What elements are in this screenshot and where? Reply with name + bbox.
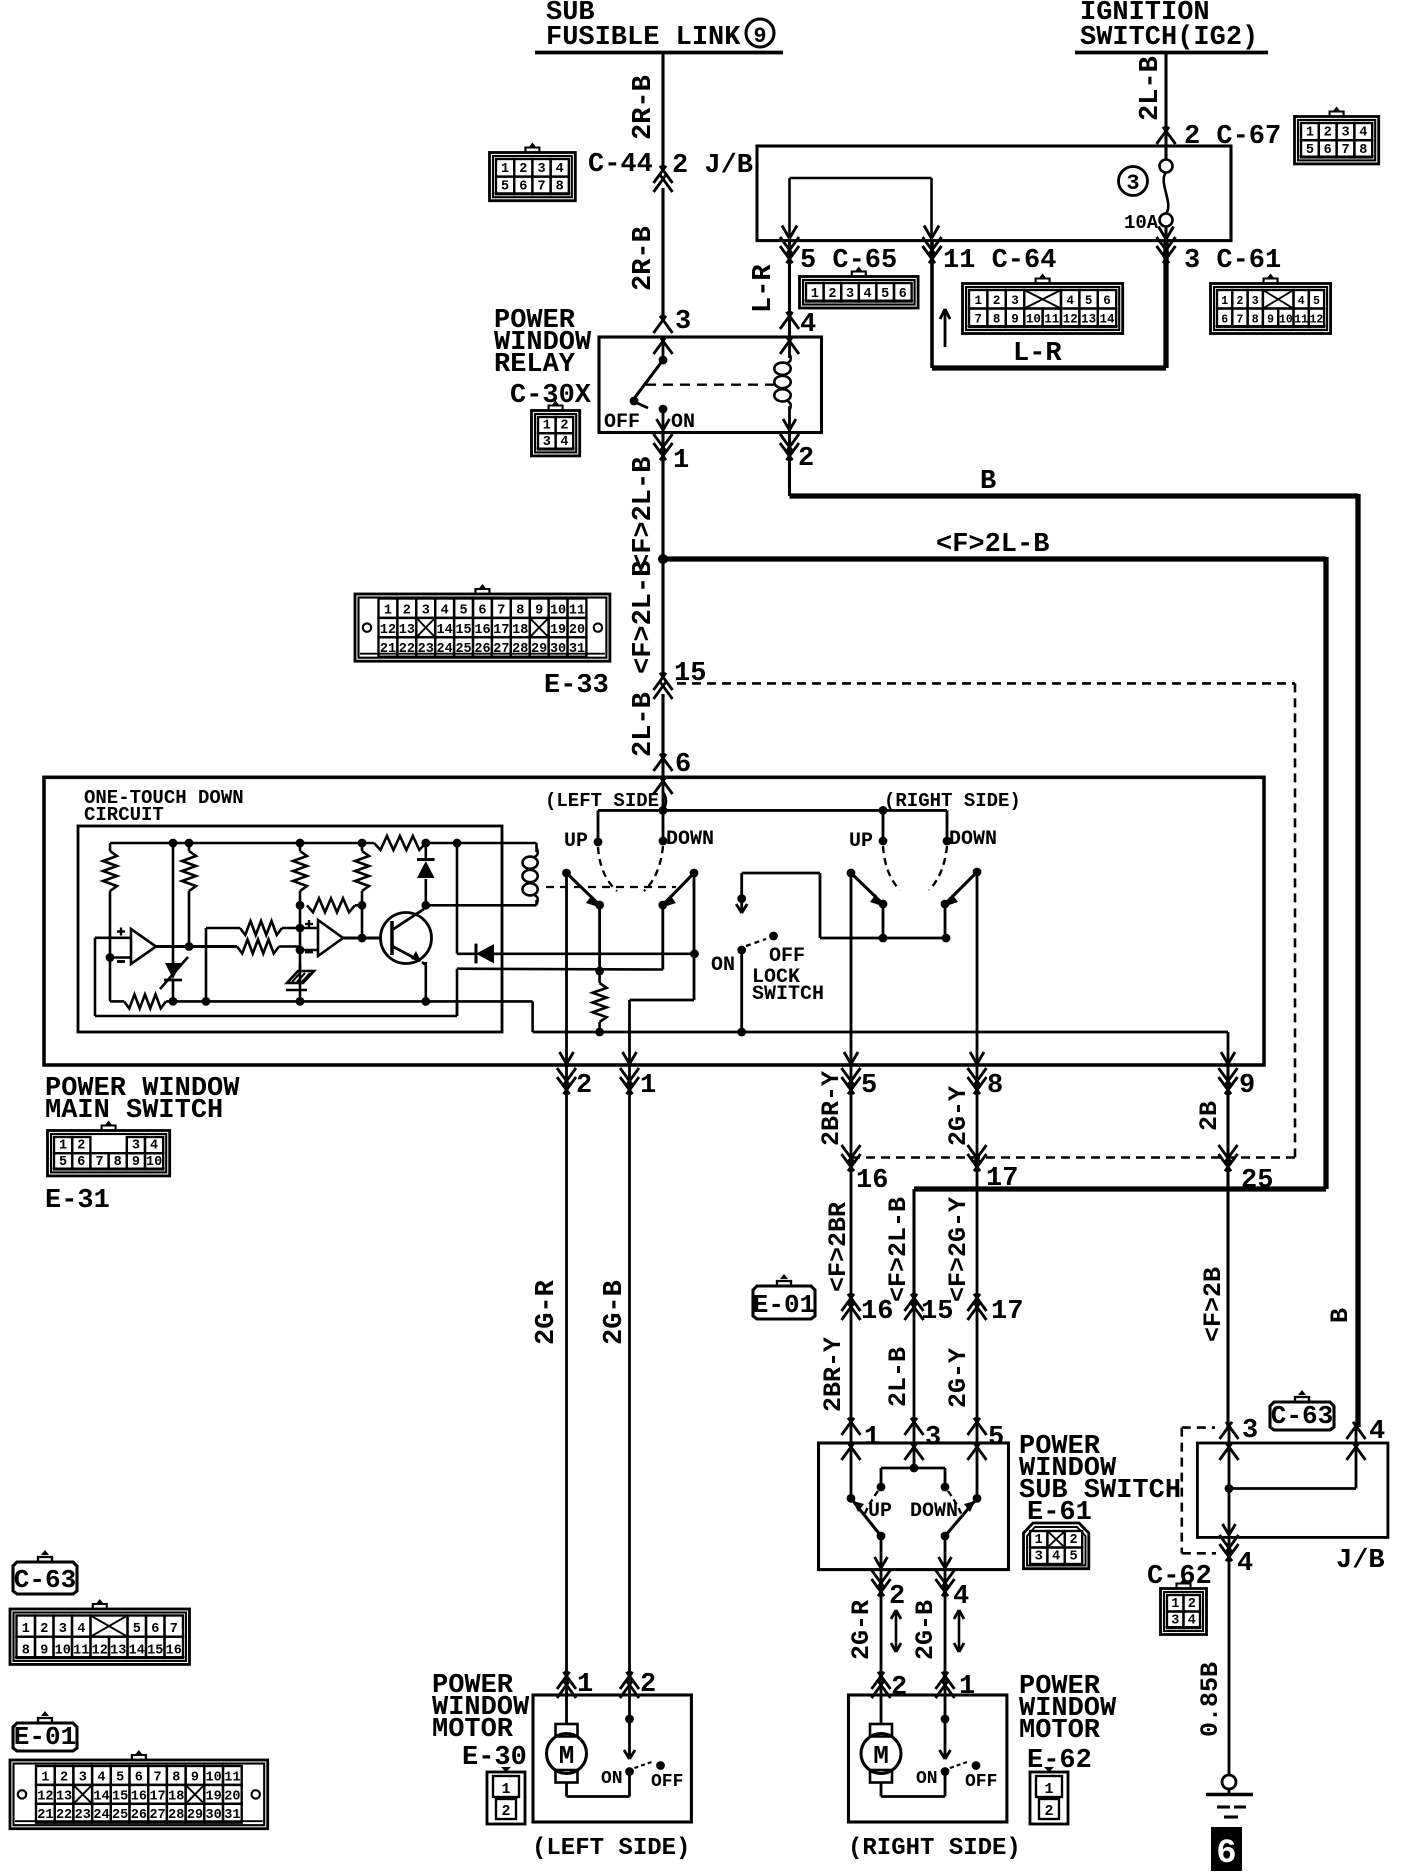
label POWER WINDOW MOTOR E-30 xyxy=(432,1671,530,1773)
svg-text:5: 5 xyxy=(861,1071,877,1101)
chevron 4 at C-63 xyxy=(1347,1417,1386,1460)
svg-text:3: 3 xyxy=(846,287,854,302)
svg-text:4: 4 xyxy=(560,435,568,450)
resistor R6 xyxy=(237,940,318,954)
label L-R under C-64 xyxy=(1013,339,1062,369)
chevron 3 at C-63 xyxy=(1220,1416,1259,1460)
motor L entry 1 xyxy=(557,1670,593,1700)
svg-text:DOWN: DOWN xyxy=(949,828,997,851)
svg-text:1: 1 xyxy=(1306,126,1314,141)
svg-text:7: 7 xyxy=(974,313,982,327)
svg-text:25: 25 xyxy=(455,642,471,657)
label 2R-B upper xyxy=(629,75,659,140)
fuse number 3 circled xyxy=(1119,167,1148,197)
svg-text:7: 7 xyxy=(497,603,505,618)
left pole wires xyxy=(595,905,663,975)
node IGNITION SWITCH (IG2) title xyxy=(1075,0,1268,53)
svg-text:1: 1 xyxy=(673,446,689,476)
one-touch down circuit box xyxy=(78,826,502,1032)
label 4 at relay coil input xyxy=(800,310,816,340)
svg-text:3: 3 xyxy=(925,1423,941,1453)
motor R entry 1 xyxy=(936,1672,976,1702)
svg-text:10: 10 xyxy=(1279,314,1293,327)
svg-text:5 C-65: 5 C-65 xyxy=(800,246,897,276)
wire C-65 pin5 drop xyxy=(780,237,799,337)
svg-text:5: 5 xyxy=(116,1770,124,1785)
connector E-62 pins xyxy=(1030,1767,1068,1824)
relay coil xyxy=(774,337,799,432)
wire 2R-B from C-44 to relay pin3 xyxy=(661,188,664,318)
label 2G-Y upper xyxy=(944,1086,973,1146)
chevron 16 lower xyxy=(842,1294,894,1327)
svg-text:1: 1 xyxy=(501,1781,510,1798)
svg-text:7: 7 xyxy=(537,180,545,195)
connector tag E-01 mid xyxy=(753,1274,815,1320)
svg-text:11: 11 xyxy=(1294,314,1308,327)
svg-text:29: 29 xyxy=(187,1808,203,1823)
sub UP dashed arc xyxy=(864,1491,878,1516)
svg-text:2BR-Y: 2BR-Y xyxy=(817,1071,846,1146)
svg-text:DOWN: DOWN xyxy=(666,828,714,851)
svg-text:1: 1 xyxy=(41,1770,49,1785)
svg-text:4: 4 xyxy=(1298,295,1305,308)
svg-text:5: 5 xyxy=(881,287,889,302)
svg-text:22: 22 xyxy=(399,642,415,657)
svg-text:6: 6 xyxy=(478,603,486,618)
label F 2L-B under relay xyxy=(629,457,659,570)
svg-text:1: 1 xyxy=(974,294,982,308)
svg-text:22: 22 xyxy=(56,1808,72,1823)
main switch exit wire 8 xyxy=(968,1052,1004,1101)
sub switch pin 3 entry xyxy=(905,1418,942,1460)
right UP contact xyxy=(879,810,888,845)
svg-text:11: 11 xyxy=(569,603,585,618)
one-touch top rail xyxy=(110,842,537,845)
svg-text:12: 12 xyxy=(92,1643,108,1658)
resistor R2 xyxy=(182,843,196,947)
svg-text:5: 5 xyxy=(1069,1550,1077,1565)
svg-text:ON: ON xyxy=(601,1769,623,1789)
wire 2R-B from sub fusible link to C-44 xyxy=(661,52,664,170)
relay pin3 chevron inside xyxy=(654,337,673,360)
svg-text:ON: ON xyxy=(711,954,735,977)
svg-text:ON: ON xyxy=(671,411,695,434)
svg-text:C-44: C-44 xyxy=(588,150,653,180)
svg-text:8: 8 xyxy=(22,1643,30,1658)
sub switch arm UP xyxy=(851,1498,885,1540)
svg-text:3: 3 xyxy=(59,1622,67,1637)
svg-text:4: 4 xyxy=(953,1582,969,1612)
power window sub switch box xyxy=(819,1443,1009,1570)
label 2 under relay xyxy=(798,444,814,474)
label 3 above relay xyxy=(675,307,691,337)
svg-text:2: 2 xyxy=(891,1673,907,1703)
junction dot main 2L-B xyxy=(658,554,668,564)
sub switch arm DOWN xyxy=(941,1498,977,1540)
svg-text:SWITCH(IG2): SWITCH(IG2) xyxy=(1080,23,1258,53)
R5 left drop wire xyxy=(205,928,208,1001)
svg-text:3: 3 xyxy=(1126,171,1139,196)
connector C-64 xyxy=(963,274,1123,334)
resistor R4 horizontal xyxy=(307,898,362,912)
svg-text:6: 6 xyxy=(899,287,907,302)
svg-text:16: 16 xyxy=(474,623,490,638)
connector C-67 xyxy=(1295,107,1379,164)
svg-text:7: 7 xyxy=(1341,143,1349,158)
svg-text:25: 25 xyxy=(112,1808,128,1823)
label 5 C-65 xyxy=(800,246,897,276)
label E-61 xyxy=(1027,1498,1092,1528)
svg-text:MOTOR: MOTOR xyxy=(432,1715,514,1745)
op-amp U2 output wire xyxy=(343,936,381,939)
label (RIGHT SIDE) xyxy=(848,1835,1021,1862)
svg-text:18: 18 xyxy=(168,1789,184,1804)
svg-text:12: 12 xyxy=(380,623,396,638)
wire L-R bus bottom xyxy=(932,365,1166,370)
svg-text:C-63: C-63 xyxy=(14,1565,76,1595)
wire fuse to C-61 pin3 xyxy=(1157,237,1176,368)
svg-text:12: 12 xyxy=(1063,313,1078,327)
svg-text:(LEFT SIDE): (LEFT SIDE) xyxy=(545,790,670,812)
right DOWN dashed arc xyxy=(929,846,947,890)
label OFF motor R xyxy=(965,1772,997,1792)
connector C-65 xyxy=(800,267,919,309)
svg-text:CIRCUIT: CIRCUIT xyxy=(84,804,164,826)
junction block J/B box xyxy=(757,146,1231,241)
svg-text:3 C-61: 3 C-61 xyxy=(1184,246,1281,276)
chevrons 16 xyxy=(842,1145,889,1196)
svg-text:0.85B: 0.85B xyxy=(1196,1662,1225,1737)
svg-text:21: 21 xyxy=(37,1808,53,1823)
svg-text:6: 6 xyxy=(1221,314,1228,327)
wire 0.85B ground xyxy=(1228,1556,1231,1775)
wire J/B out xyxy=(1220,1489,1239,1562)
ground symbol xyxy=(1206,1775,1253,1817)
svg-text:19: 19 xyxy=(206,1789,222,1804)
svg-text:11: 11 xyxy=(1044,313,1059,327)
label UP sub xyxy=(868,1500,892,1523)
svg-text:FUSIBLE LINK: FUSIBLE LINK xyxy=(546,23,741,53)
svg-text:2: 2 xyxy=(60,1770,68,1785)
transistor Q1 xyxy=(381,909,432,964)
svg-text:OFF: OFF xyxy=(651,1772,683,1792)
svg-text:9: 9 xyxy=(753,24,766,49)
wire B into J/B xyxy=(1229,1427,1356,1489)
svg-text:9: 9 xyxy=(132,1155,140,1170)
svg-text:(LEFT SIDE): (LEFT SIDE) xyxy=(532,1835,690,1862)
svg-text:2: 2 xyxy=(576,1071,592,1101)
main switch exit wire 2 xyxy=(557,1052,592,1101)
main switch exit wire 5 xyxy=(842,1052,878,1101)
svg-text:8: 8 xyxy=(993,313,1001,327)
label F 2L-B pin15 xyxy=(884,1197,913,1302)
svg-text:<F>2L-B: <F>2L-B xyxy=(884,1197,913,1302)
svg-text:14: 14 xyxy=(129,1643,145,1658)
svg-text:OFF: OFF xyxy=(604,411,640,434)
label J/B bottom xyxy=(1336,1546,1385,1576)
sub switch pin1 wire xyxy=(847,1443,856,1503)
label F 2BR xyxy=(824,1202,853,1292)
svg-text:3: 3 xyxy=(79,1770,87,1785)
right DOWN contact xyxy=(943,810,952,845)
label 2G-R left xyxy=(532,1279,562,1345)
left switch arm UP xyxy=(562,869,600,907)
svg-text:11: 11 xyxy=(73,1643,89,1658)
svg-text:31: 31 xyxy=(224,1808,240,1823)
svg-text:30: 30 xyxy=(206,1808,222,1823)
dashed junction line right xyxy=(851,1156,1295,1159)
relay ON contact xyxy=(657,405,670,432)
label DOWN left xyxy=(666,828,714,851)
label POWER WINDOW MAIN SWITCH xyxy=(45,1074,240,1126)
svg-text:1: 1 xyxy=(1044,1781,1053,1798)
svg-text:1: 1 xyxy=(811,287,819,302)
label OFF lock xyxy=(769,945,805,968)
svg-text:15: 15 xyxy=(921,1297,953,1327)
svg-text:8: 8 xyxy=(516,603,524,618)
svg-text:4: 4 xyxy=(150,1139,158,1154)
svg-text:8: 8 xyxy=(1359,143,1367,158)
diode D1 xyxy=(417,843,435,878)
svg-text:10: 10 xyxy=(550,603,566,618)
svg-text:E-33: E-33 xyxy=(544,671,609,701)
label POWER WINDOW RELAY xyxy=(494,306,592,380)
svg-text:12: 12 xyxy=(37,1789,53,1804)
svg-text:UP: UP xyxy=(849,830,873,853)
svg-text:12: 12 xyxy=(1310,314,1324,327)
sub switch pole wires xyxy=(881,1536,945,1570)
svg-text:13: 13 xyxy=(399,623,415,638)
svg-text:24: 24 xyxy=(93,1808,109,1823)
label 2BR-Y upper xyxy=(817,1071,846,1146)
svg-text:15: 15 xyxy=(455,623,471,638)
connector E-61 xyxy=(1024,1523,1089,1569)
wire 2L-B to E-33 pin15 xyxy=(661,559,664,676)
svg-text:1: 1 xyxy=(577,1670,593,1700)
wire 2 left contact down xyxy=(565,873,568,1065)
connector C-44 in-line marker (chevrons) xyxy=(654,166,673,192)
motor R entry 2 xyxy=(872,1672,908,1703)
svg-text:18: 18 xyxy=(512,623,528,638)
svg-text:UP: UP xyxy=(868,1500,892,1523)
svg-text:RELAY: RELAY xyxy=(494,350,576,380)
svg-text:3: 3 xyxy=(1252,295,1259,308)
label F 2B xyxy=(1199,1267,1228,1342)
sub switch pin5 wire xyxy=(973,1443,982,1503)
svg-text:1: 1 xyxy=(1171,1597,1179,1612)
svg-text:4: 4 xyxy=(441,603,449,618)
svg-text:31: 31 xyxy=(569,642,585,657)
label ON lock xyxy=(711,954,735,977)
svg-text:<F>2G-Y: <F>2G-Y xyxy=(944,1197,973,1302)
op-amp U1 plus input wire xyxy=(95,936,131,939)
svg-text:10: 10 xyxy=(206,1770,222,1785)
left UP contact xyxy=(594,810,603,846)
label F 2L-B bus xyxy=(936,530,1049,560)
resistor R3 xyxy=(293,843,307,971)
svg-text:L-R: L-R xyxy=(749,264,779,313)
label B right rotated xyxy=(1326,1308,1355,1323)
connector tag C-63 right xyxy=(1270,1390,1334,1431)
svg-text:UP: UP xyxy=(564,830,588,853)
svg-text:26: 26 xyxy=(131,1808,147,1823)
svg-text:2: 2 xyxy=(519,162,527,177)
label LOCK xyxy=(752,966,800,989)
dashed wire E-33 to sub right xyxy=(677,683,1295,1157)
svg-text:13: 13 xyxy=(56,1789,72,1804)
svg-text:2: 2 xyxy=(1236,295,1243,308)
svg-text:2B: 2B xyxy=(1195,1101,1224,1131)
one-touch relay coil xyxy=(523,843,538,905)
label POWER WINDOW MOTOR E-62 xyxy=(1019,1672,1117,1776)
svg-text:2BR-Y: 2BR-Y xyxy=(819,1337,848,1412)
wire 2G-B sub to motor xyxy=(944,1570,947,1695)
svg-text:13: 13 xyxy=(1081,313,1096,327)
left DOWN dashed arc xyxy=(644,846,663,891)
chevrons 25 xyxy=(1219,1145,1274,1196)
wire 8 to 17 xyxy=(976,1065,979,1443)
svg-text:17: 17 xyxy=(493,623,509,638)
svg-text:2: 2 xyxy=(828,287,836,302)
wire 2G-B left motor xyxy=(628,1065,631,1695)
junction block 2 box xyxy=(1197,1443,1388,1537)
resistor R5 xyxy=(206,921,318,935)
svg-text:23: 23 xyxy=(75,1808,91,1823)
svg-text:9: 9 xyxy=(1011,313,1019,327)
label DOWN sub xyxy=(910,1500,958,1523)
svg-text:4: 4 xyxy=(97,1770,105,1785)
label 3 C-61 xyxy=(1184,246,1281,276)
one-touch bottom rail xyxy=(110,994,533,1008)
power window main switch box xyxy=(44,777,1264,1065)
svg-text:17: 17 xyxy=(149,1789,165,1804)
svg-text:16: 16 xyxy=(131,1789,147,1804)
svg-text:1: 1 xyxy=(22,1622,30,1637)
svg-text:21: 21 xyxy=(380,642,396,657)
svg-text:3: 3 xyxy=(1035,1550,1043,1565)
svg-text:2L-B: 2L-B xyxy=(629,692,659,757)
svg-text:3: 3 xyxy=(1171,1614,1179,1629)
svg-text:3: 3 xyxy=(1011,294,1019,308)
label C-62 xyxy=(1147,1562,1212,1592)
svg-text:16: 16 xyxy=(166,1643,182,1658)
svg-text:E-30: E-30 xyxy=(462,1743,527,1773)
wire relay pin1 out xyxy=(654,432,673,559)
svg-text:26: 26 xyxy=(474,642,490,657)
svg-text:E-01: E-01 xyxy=(753,1290,815,1320)
svg-text:2G-Y: 2G-Y xyxy=(944,1086,973,1146)
svg-text:2L-B: 2L-B xyxy=(884,1347,913,1407)
label 15 xyxy=(674,659,706,689)
lock switch pole xyxy=(737,932,778,955)
svg-text:5: 5 xyxy=(1306,143,1314,158)
svg-text:M: M xyxy=(559,1741,575,1771)
right switch arm UP xyxy=(847,869,883,906)
sub exit 4 xyxy=(936,1557,970,1612)
wire C-64 pin11 drop xyxy=(923,237,942,368)
svg-text:4: 4 xyxy=(1188,1614,1196,1629)
label C-30X xyxy=(510,381,592,411)
svg-text:E-31: E-31 xyxy=(45,1186,110,1216)
label ON motor L xyxy=(601,1769,623,1789)
svg-text:1: 1 xyxy=(1221,295,1228,308)
svg-text:5: 5 xyxy=(459,603,467,618)
svg-text:20: 20 xyxy=(569,623,585,638)
svg-text:19: 19 xyxy=(550,623,566,638)
svg-text:DOWN: DOWN xyxy=(910,1500,958,1523)
connector E-33 xyxy=(355,584,610,661)
svg-text:2: 2 xyxy=(1044,1803,1053,1820)
svg-text:SWITCH: SWITCH xyxy=(752,983,824,1006)
svg-text:15: 15 xyxy=(112,1789,128,1804)
svg-text:<F>2B: <F>2B xyxy=(1199,1267,1228,1342)
label OFF motor L xyxy=(651,1772,683,1792)
svg-text:11 C-64: 11 C-64 xyxy=(943,246,1056,276)
svg-text:5: 5 xyxy=(988,1423,1004,1453)
node SUB FUSIBLE LINK 9 title xyxy=(535,0,783,53)
svg-text:L-R: L-R xyxy=(1013,339,1062,369)
label 2R-B lower xyxy=(629,226,659,291)
right switch poles xyxy=(879,900,950,909)
svg-text:7: 7 xyxy=(170,1622,178,1637)
label ONE-TOUCH DOWN CIRCUIT xyxy=(84,787,244,826)
svg-text:11: 11 xyxy=(224,1770,240,1785)
label 2 C-67 xyxy=(1184,122,1281,152)
chevron 17 lower xyxy=(968,1294,1024,1327)
label L-R rotated xyxy=(749,264,779,313)
op-amp U2 xyxy=(305,920,343,956)
svg-text:9: 9 xyxy=(1267,314,1274,327)
one-touch feedback left wire xyxy=(94,938,97,1016)
svg-text:10: 10 xyxy=(55,1643,71,1658)
relay switch arm xyxy=(630,356,668,408)
svg-text:2: 2 xyxy=(640,1670,656,1700)
svg-text:6: 6 xyxy=(519,180,527,195)
label (RIGHT SIDE) xyxy=(884,790,1021,812)
svg-text:2 J/B: 2 J/B xyxy=(672,151,753,181)
svg-text:10: 10 xyxy=(1026,313,1041,327)
wire 9 rail out xyxy=(1227,1032,1230,1065)
sub switch pin 5 entry xyxy=(968,1418,1005,1460)
svg-text:2: 2 xyxy=(993,294,1001,308)
E-33 pin15 chevrons xyxy=(654,673,673,699)
op-amp U1 output wire xyxy=(156,942,237,951)
label 1 under relay xyxy=(673,446,689,476)
svg-text:2R-B: 2R-B xyxy=(629,226,659,291)
wire B bus horizontal xyxy=(790,494,1359,1427)
chevron above relay pin4 xyxy=(780,312,799,329)
svg-text:2: 2 xyxy=(798,444,814,474)
svg-text:3: 3 xyxy=(537,162,545,177)
svg-text:B: B xyxy=(980,467,996,497)
label (LEFT SIDE) xyxy=(532,1835,690,1862)
connector tag E-01 left xyxy=(13,1711,77,1752)
svg-text:6: 6 xyxy=(135,1770,143,1785)
svg-text:5: 5 xyxy=(1085,294,1093,308)
left switch feed rail xyxy=(598,806,947,815)
wire 8 right contact down xyxy=(976,872,979,1065)
label 11 C-64 xyxy=(943,246,1056,276)
label 2L-B xyxy=(1136,56,1166,121)
direction arrow at C-64 xyxy=(940,309,950,347)
one-touch output wire to switch xyxy=(457,969,663,1016)
label UP left xyxy=(564,830,588,853)
svg-text:6: 6 xyxy=(675,750,691,780)
sub DOWN dashed arc xyxy=(948,1491,962,1516)
label F 2L-B mid xyxy=(629,561,659,674)
svg-text:2: 2 xyxy=(77,1139,85,1154)
svg-text:28: 28 xyxy=(512,642,528,657)
